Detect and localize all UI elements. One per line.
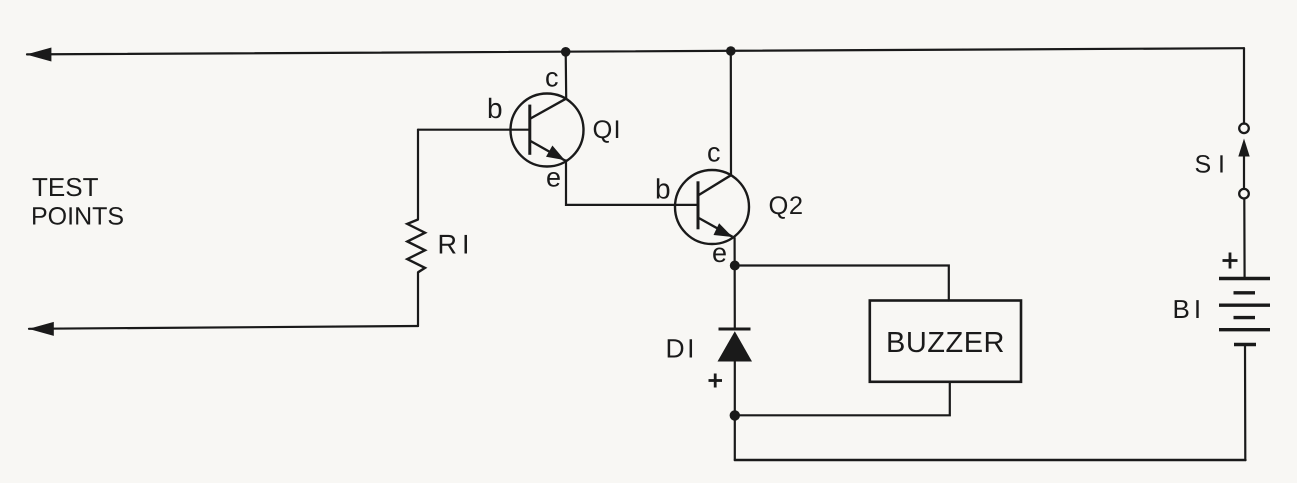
- arrowhead bottom-left test lead: [29, 322, 54, 336]
- wire R1 bottom lead: [417, 272, 419, 326]
- svg-text:e: e: [546, 163, 561, 193]
- wire Q1 emitter down and right to Q2 base: [566, 160, 698, 205]
- svg-text:QI: QI: [593, 116, 622, 144]
- label B1 plus: [1223, 253, 1238, 269]
- buzzer box: [870, 301, 1021, 382]
- arrowhead top-left test lead: [26, 48, 51, 62]
- node junction diode anode / buzzer return: [730, 410, 740, 420]
- svg-text:DI: DI: [666, 334, 698, 364]
- node junction top wire at Q1 collector: [561, 47, 571, 57]
- resistor R1: [407, 220, 425, 273]
- wire R1 top lead: [417, 130, 419, 220]
- svg-text:POINTS: POINTS: [31, 203, 124, 231]
- wire bottom-left to arrow: [29, 326, 418, 329]
- wire S1 bottom to battery: [1243, 199, 1245, 279]
- wire buzzer bottom branch: [735, 382, 950, 416]
- wire top horizontal: [27, 48, 1244, 54]
- switch S1 arrow blade: [1238, 139, 1249, 157]
- svg-text:S: S: [1195, 151, 1212, 179]
- wire Q1 base from R1: [418, 129, 530, 131]
- svg-text:RI: RI: [438, 230, 475, 260]
- svg-text:BUZZER: BUZZER: [886, 327, 1005, 359]
- node junction Q2 emitter: [730, 261, 740, 271]
- battery B1: [1219, 279, 1270, 345]
- wire Q2 emitter down to diode: [733, 238, 735, 329]
- svg-text:Q2: Q2: [769, 192, 804, 220]
- switch S1: [1239, 124, 1249, 199]
- wire buzzer top branch: [735, 266, 949, 301]
- wire S1 blade segment: [1243, 150, 1245, 189]
- wire diode node to bottom wire: [734, 415, 736, 460]
- svg-text:e: e: [712, 238, 727, 268]
- wire Q2 collector up to node: [730, 51, 732, 175]
- transistor Q1: [511, 94, 584, 167]
- node junction top wire at Q2 collector: [726, 46, 736, 56]
- svg-text:I: I: [1218, 151, 1225, 179]
- diode D1: [718, 329, 753, 362]
- svg-text:b: b: [655, 174, 671, 205]
- transistor Q2: [675, 170, 749, 244]
- svg-text:TEST: TEST: [32, 172, 99, 202]
- wire diode to lower node: [734, 362, 736, 416]
- wire bottom horizontal: [735, 459, 1245, 462]
- wire right vertical (top, to S1): [1243, 48, 1245, 124]
- svg-text:BI: BI: [1173, 294, 1206, 324]
- svg-text:b: b: [487, 93, 503, 124]
- label D1 plus: [709, 374, 723, 388]
- wire battery stem to bottom: [1244, 345, 1247, 461]
- wire Q1 collector up to node: [565, 52, 568, 99]
- svg-text:c: c: [545, 63, 559, 93]
- svg-text:c: c: [707, 138, 721, 168]
